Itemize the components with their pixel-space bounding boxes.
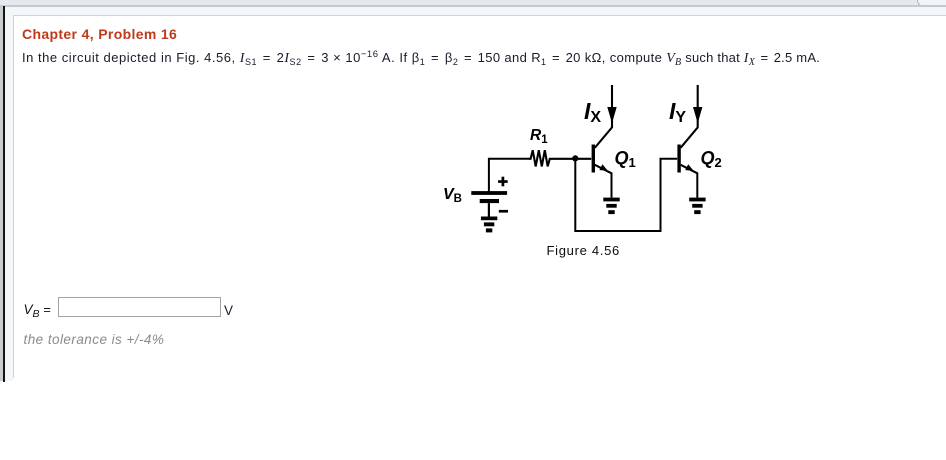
problem text [22, 51, 820, 66]
left gray column [0, 7, 3, 382]
light strip full width [0, 7, 946, 16]
node A junction dot [572, 155, 578, 161]
label Q2 [701, 149, 722, 167]
transistor Q1 [592, 85, 617, 198]
label IY [669, 100, 686, 123]
wire node to bottom to Q2 base [575, 159, 677, 231]
title [22, 27, 177, 41]
band bottom border [0, 5, 946, 6]
tolerance note [24, 333, 165, 347]
tab corner top right [917, 0, 946, 7]
figure caption [547, 244, 620, 257]
label VB [443, 187, 462, 203]
answer row VB = [24, 303, 51, 317]
transistor Q2 [677, 85, 702, 198]
plus sign [498, 180, 508, 183]
label Q1 [615, 149, 636, 167]
input box [58, 297, 221, 317]
ground (battery) [481, 217, 497, 233]
panel top border [13, 15, 946, 16]
minus sign [499, 210, 508, 213]
top gray band [0, 0, 946, 5]
unit V [224, 304, 233, 318]
circuit SVG [430, 80, 730, 240]
battery source VB [471, 177, 508, 217]
ground (Q1 emitter) [603, 198, 619, 214]
panel left border [13, 15, 14, 378]
black vertical line [3, 6, 5, 382]
wire battery top to resistor [489, 159, 529, 192]
label R1 [530, 128, 548, 144]
label IX [584, 100, 601, 123]
resistor R1 [529, 150, 591, 166]
left light column [5, 15, 13, 381]
ground (Q2 emitter) [689, 198, 705, 214]
